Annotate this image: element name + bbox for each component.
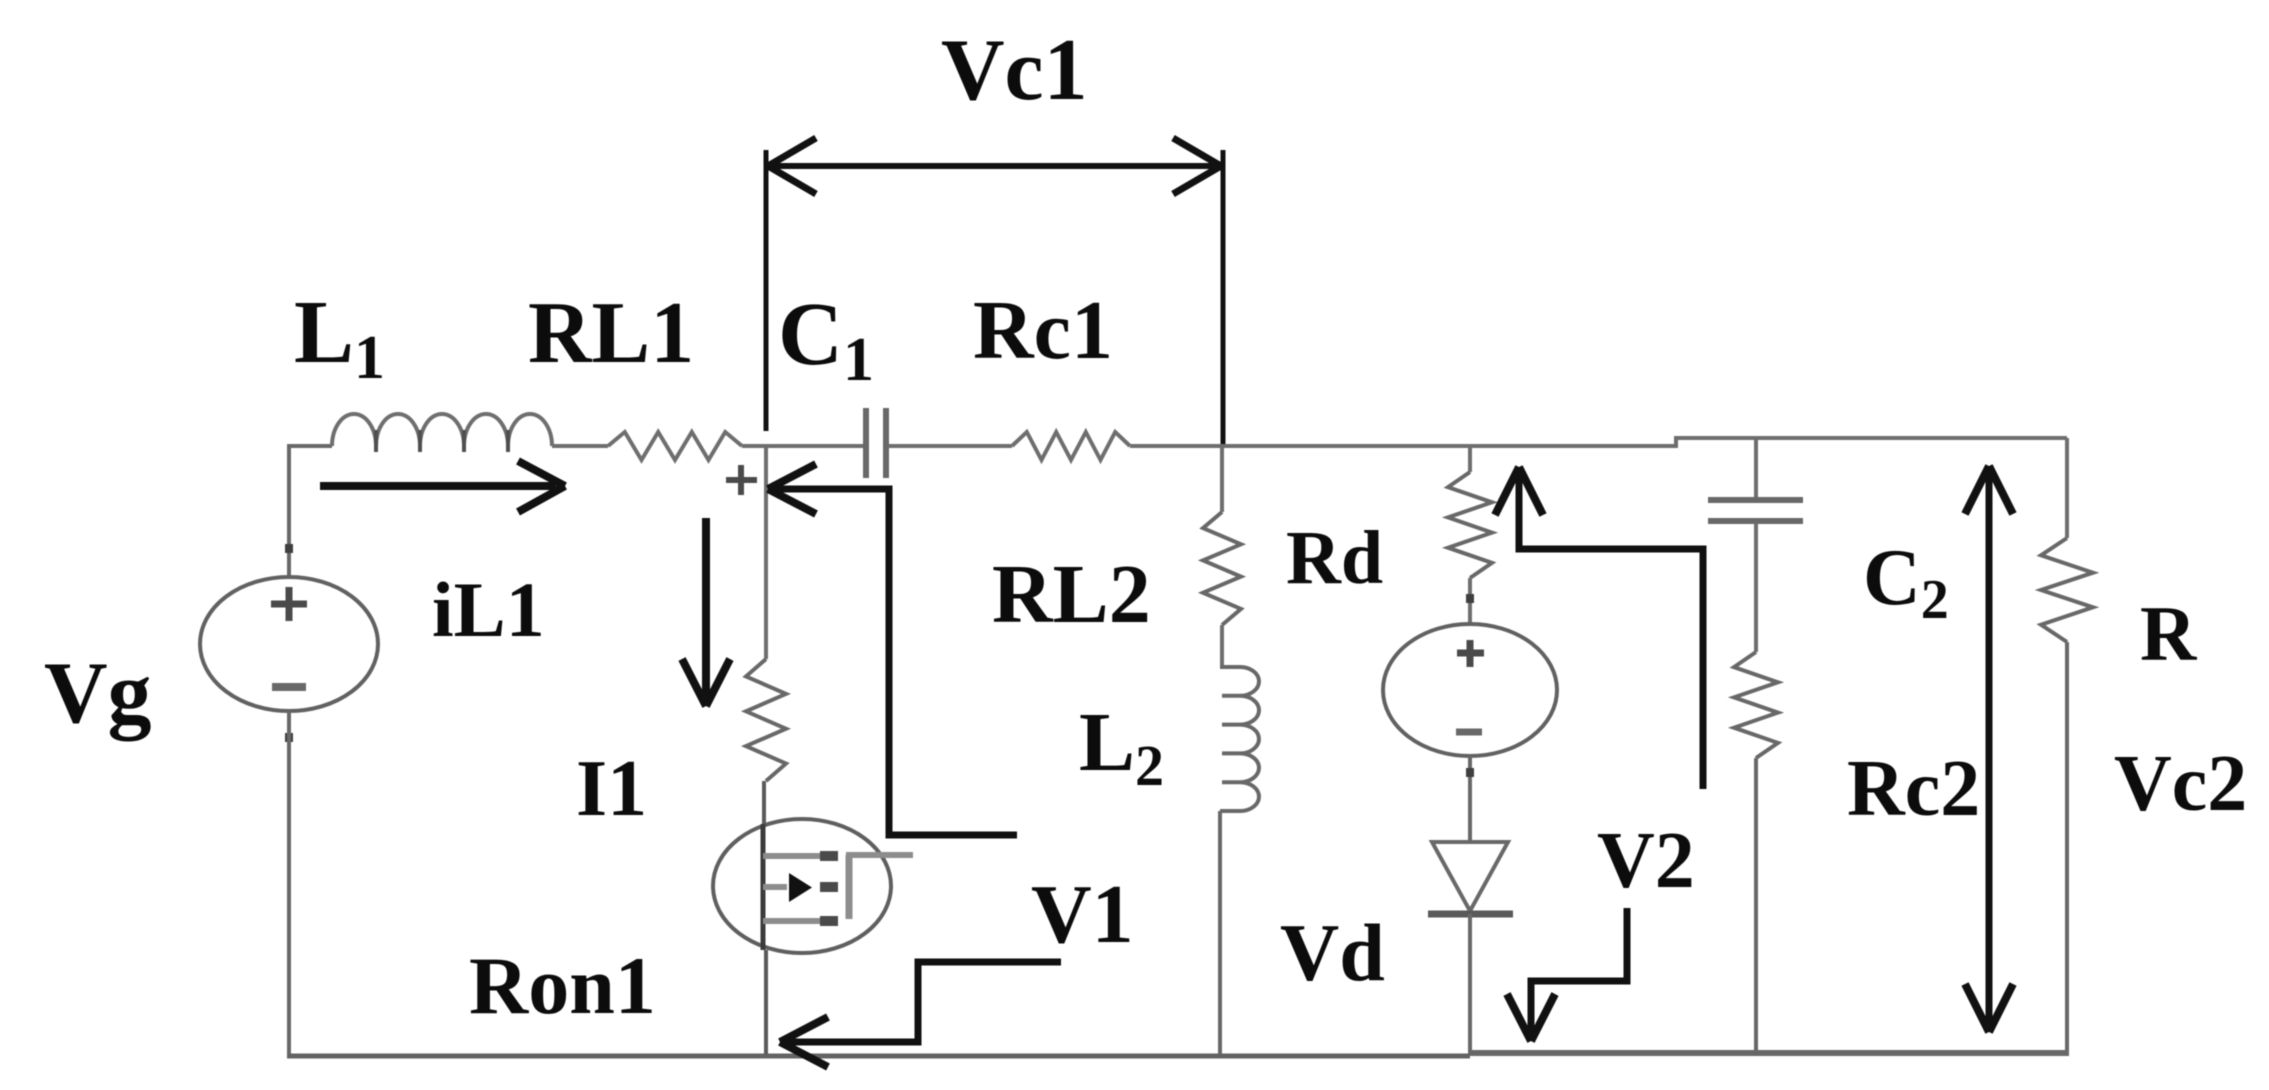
capacitor C1 <box>866 408 886 478</box>
svg-text:iL1: iL1 <box>432 566 545 653</box>
svg-text:C1: C1 <box>778 285 874 394</box>
node A junction vertical (switch branch top) <box>764 446 768 659</box>
wire: RL1 to capacitor C1 left plate (through node A) <box>742 444 864 448</box>
plus sign at node A <box>726 465 757 495</box>
svg-text:Vg: Vg <box>44 645 152 742</box>
wire: bottom rail <box>287 1054 1470 1059</box>
wire: left riser from Vg to top rail <box>289 446 332 578</box>
diode Vd <box>1432 842 1508 911</box>
V2 top measurement arrow (points up at top node) <box>1519 474 1703 789</box>
wire: R to bottom rail <box>2065 642 2069 1054</box>
resistor RL1 <box>608 432 742 460</box>
resistor Rc2 <box>1734 652 1778 758</box>
capacitor C2 <box>1708 500 1803 521</box>
wire: top rail from Rc1 to right corner <box>1130 444 1678 448</box>
svg-text:Vc1: Vc1 <box>941 22 1088 119</box>
voltage source Vg <box>200 577 378 711</box>
Vc1 dimension: right extension line <box>1221 150 1226 444</box>
svg-text:V1: V1 <box>1031 868 1134 961</box>
wire: right branch top (R load) <box>2065 438 2069 538</box>
current arrow iL1 <box>320 482 556 490</box>
inductor L1 <box>332 414 552 446</box>
V1 top measurement arrow (points at node A) <box>773 489 1017 835</box>
current arrow I1 (downward) <box>702 518 710 697</box>
svg-text:RL1: RL1 <box>528 285 694 382</box>
wire: diode to bottom rail <box>1468 914 1472 1054</box>
svg-text:R: R <box>2140 590 2198 677</box>
Vc2 double-headed arrow <box>1986 472 1993 1026</box>
transistor Q1 (MOSFET switch) <box>713 819 891 953</box>
svg-text:RL2: RL2 <box>992 548 1151 641</box>
wire: C2 branch top <box>1754 438 1758 498</box>
svg-text:Rd: Rd <box>1286 516 1383 600</box>
svg-text:Vc2: Vc2 <box>2114 740 2247 828</box>
wire: L1 to RL1 <box>552 444 608 448</box>
wire: Rc2 to bottom rail <box>1754 758 1758 1054</box>
resistor Rc1 <box>1012 432 1130 460</box>
svg-text:C2: C2 <box>1863 534 1949 631</box>
wire: C2 to Rc2 <box>1754 523 1758 652</box>
wire: C1 to Rc1 <box>888 444 1012 448</box>
wire: Rd to source V2 <box>1468 578 1472 624</box>
svg-text:Rc1: Rc1 <box>973 284 1113 377</box>
inductor L2 <box>1220 667 1259 811</box>
resistor Rd <box>1448 472 1492 578</box>
wire: Rd branch top <box>1468 446 1472 472</box>
wire: V2 to diode Vd <box>1468 756 1472 842</box>
svg-text:V2: V2 <box>1597 817 1695 905</box>
svg-text:L1: L1 <box>294 283 385 392</box>
resistor Ron1 <box>746 659 786 781</box>
voltage source V2 <box>1383 624 1557 756</box>
svg-text:Rc2: Rc2 <box>1847 745 1980 833</box>
V2 bottom measurement arrow (points down at bottom rail) <box>1531 908 1627 1035</box>
wire: Vg bottom to bottom rail <box>287 711 291 1054</box>
svg-text:Ron1: Ron1 <box>469 940 656 1031</box>
wire: Ron1 to MOSFET drain <box>762 781 766 824</box>
wire: MOSFET source to bottom rail <box>764 950 768 1054</box>
wire: RL2 branch top <box>1220 446 1224 512</box>
svg-text:I1: I1 <box>576 745 647 833</box>
Vc1 dimension: left extension line <box>764 150 769 431</box>
wire: RL2 to L2 <box>1220 625 1222 667</box>
Vc1 dimension double arrow <box>770 163 1219 169</box>
resistor R <box>2041 538 2093 642</box>
svg-text:L2: L2 <box>1079 696 1164 798</box>
svg-text:Vd: Vd <box>1280 907 1385 998</box>
wire: L2 to bottom rail <box>1218 811 1222 1054</box>
V1 bottom measurement arrow (points at bottom rail node) <box>786 962 1061 1042</box>
resistor RL2 <box>1203 512 1241 625</box>
